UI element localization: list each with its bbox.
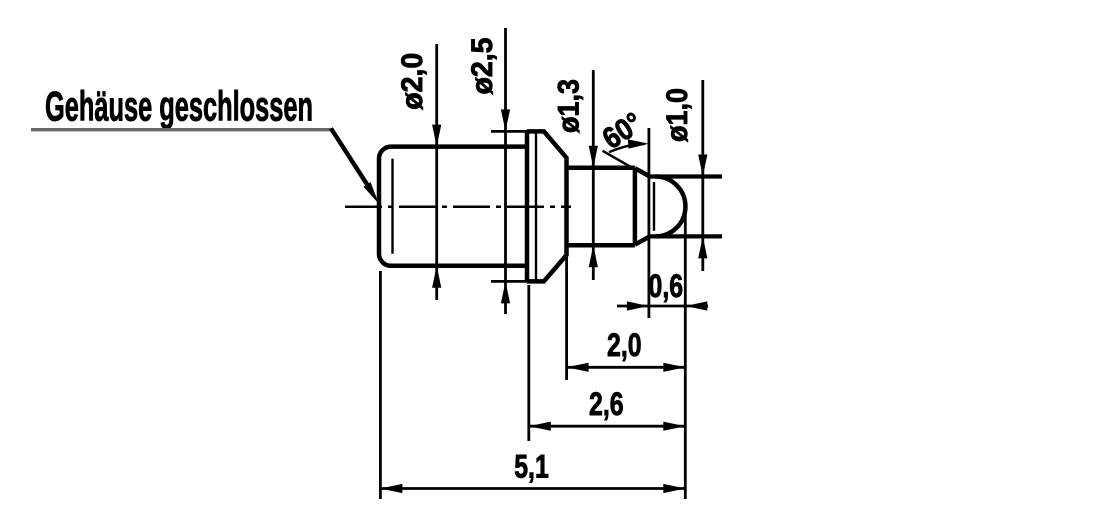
tip chamfer bottom xyxy=(635,236,650,244)
shaft end face xyxy=(633,168,638,246)
dimension line Ø2,5 xyxy=(504,28,507,314)
svg-text:ø2,0: ø2,0 xyxy=(396,53,429,110)
dome tangent edge xyxy=(653,182,655,231)
svg-text:0,6: 0,6 xyxy=(649,268,684,304)
tip dome (spherical end) xyxy=(656,177,686,237)
dimension 2,0 xyxy=(567,366,686,369)
tip bottom edge + Ø1.0 extension line xyxy=(649,234,723,238)
body tangent edge xyxy=(391,159,393,254)
tip top edge + Ø1.0 extension line xyxy=(649,174,723,178)
svg-text:ø1,3: ø1,3 xyxy=(553,79,586,133)
svg-text:60°: 60° xyxy=(597,106,649,155)
tip chamfer top (60°) xyxy=(635,168,650,176)
flange outline (Ø2.5) xyxy=(527,131,567,281)
2,0 left extension line xyxy=(565,253,568,380)
centerline xyxy=(345,206,571,209)
svg-text:2,6: 2,6 xyxy=(589,386,624,422)
dimension line Ø2,0 xyxy=(435,44,438,300)
2,6 left extension line xyxy=(527,285,530,441)
60° arc leader xyxy=(609,144,645,152)
leader underline (gray) xyxy=(31,128,332,131)
svg-text:2,0: 2,0 xyxy=(607,327,642,363)
60° chamfer extension line xyxy=(603,151,637,170)
right shared extension line xyxy=(684,204,687,499)
flange tangent edge xyxy=(535,134,537,280)
shaft bottom edge xyxy=(567,243,635,248)
Ø2,5 extension line top xyxy=(491,130,527,133)
dimension line Ø1,3 xyxy=(592,70,595,280)
60° vertical extension line (also 0,6 left extension) xyxy=(648,128,651,318)
Ø2,5 extension line bottom xyxy=(491,280,527,283)
dimension 2,6 xyxy=(529,425,686,428)
dimension 0,6 xyxy=(617,305,708,308)
dimension line Ø1,0 xyxy=(701,80,704,271)
leader diagonal xyxy=(331,128,370,189)
body outline (housing, Ø2.0) xyxy=(379,147,527,266)
60° arrowhead xyxy=(628,139,649,148)
shaft top edge (Ø1.3) xyxy=(567,165,635,170)
flange left face xyxy=(525,131,530,281)
svg-text:ø1,0: ø1,0 xyxy=(661,88,694,142)
svg-text:Gehäuse geschlossen: Gehäuse geschlossen xyxy=(45,83,313,130)
dimension 5,1 xyxy=(380,487,685,490)
5,1 left extension line xyxy=(379,271,382,499)
leader arrowhead xyxy=(364,183,377,202)
svg-text:ø2,5: ø2,5 xyxy=(466,38,499,95)
svg-text:5,1: 5,1 xyxy=(514,449,549,485)
